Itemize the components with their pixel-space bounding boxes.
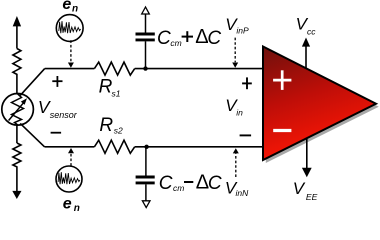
svg-text:C: C — [157, 28, 171, 49]
noise source e_n bottom — [56, 166, 82, 192]
wire: rail into sensor — [16, 76, 18, 95]
wire: diagonal sensor to + wire — [20, 69, 45, 96]
svg-text:e: e — [63, 196, 72, 213]
label - at op-amp inverting input — [240, 134, 252, 136]
arrow: open arrowhead up on C_cm+dC — [142, 7, 150, 14]
svg-text:R: R — [99, 115, 113, 136]
capacitor C_cm - dC — [136, 147, 155, 201]
wire: dashed arrow from e_n top — [68, 40, 74, 67]
svg-text:C: C — [207, 28, 221, 49]
label C_cm + dC — [157, 26, 221, 49]
svg-text:e: e — [62, 0, 71, 13]
wire: rail below sensor — [16, 125, 18, 143]
wire: dashed arrow V_inN up to - node — [233, 148, 239, 177]
wire: dashed arrow from e_n bottom — [68, 148, 74, 166]
label + at op-amp noninverting input — [242, 77, 252, 89]
wire: top signal wire left part — [45, 68, 95, 70]
wire: bottom signal wire left part — [45, 146, 95, 148]
svg-text:s1: s1 — [112, 89, 121, 99]
svg-text:n: n — [72, 4, 78, 15]
sensor V_sensor (circle, zigzag, arrow) — [2, 94, 34, 126]
svg-text:inN: inN — [236, 188, 250, 198]
wire: dashed arrow V_inP down to + node — [232, 38, 238, 68]
op-amp shadow — [266, 50, 379, 164]
svg-text:C: C — [159, 173, 173, 194]
svg-text:inP: inP — [236, 26, 249, 36]
svg-text:EE: EE — [306, 192, 318, 202]
resistor: bridge top element — [13, 49, 21, 76]
wire: V_cc supply arrow — [302, 38, 310, 70]
svg-text:s2: s2 — [114, 126, 123, 136]
capacitor C_cm + dC — [136, 14, 155, 69]
arrow: bridge excitation down — [12, 191, 21, 199]
node: top junction — [143, 66, 147, 70]
arrow: bridge excitation up — [13, 16, 21, 49]
svg-text:n: n — [74, 203, 80, 213]
label C_cm - dC — [159, 171, 222, 194]
label - inside op-amp (white) — [273, 129, 291, 132]
label + at bridge output — [52, 76, 62, 87]
wire: bottom wire from R_s2 to op-amp — [135, 146, 263, 148]
resistor R_s1 — [94, 62, 134, 75]
svg-text:in: in — [236, 108, 243, 118]
wire: diagonal sensor to - wire — [20, 123, 44, 146]
arrow: open arrowhead down on C_cm-dC — [142, 201, 150, 208]
resistor R_s2 — [94, 140, 134, 153]
svg-text:cc: cc — [307, 27, 316, 37]
wire: top wire from R_s1 to op-amp — [135, 68, 263, 70]
label - at bridge output — [51, 132, 62, 134]
svg-text:C: C — [208, 173, 222, 194]
svg-text:cm: cm — [173, 183, 184, 193]
noise source e_n top — [56, 15, 83, 42]
node: bottom junction — [144, 145, 148, 149]
svg-text:sensor: sensor — [50, 110, 78, 120]
wire: V_EE supply arrow — [302, 139, 312, 177]
op-amp U1 (red triangle) — [263, 47, 376, 161]
svg-text:cm: cm — [170, 38, 181, 48]
resistor: bridge bottom element — [13, 143, 21, 191]
svg-text:V: V — [293, 179, 306, 198]
svg-text:R: R — [99, 77, 113, 98]
label + inside op-amp (white) — [273, 70, 291, 90]
